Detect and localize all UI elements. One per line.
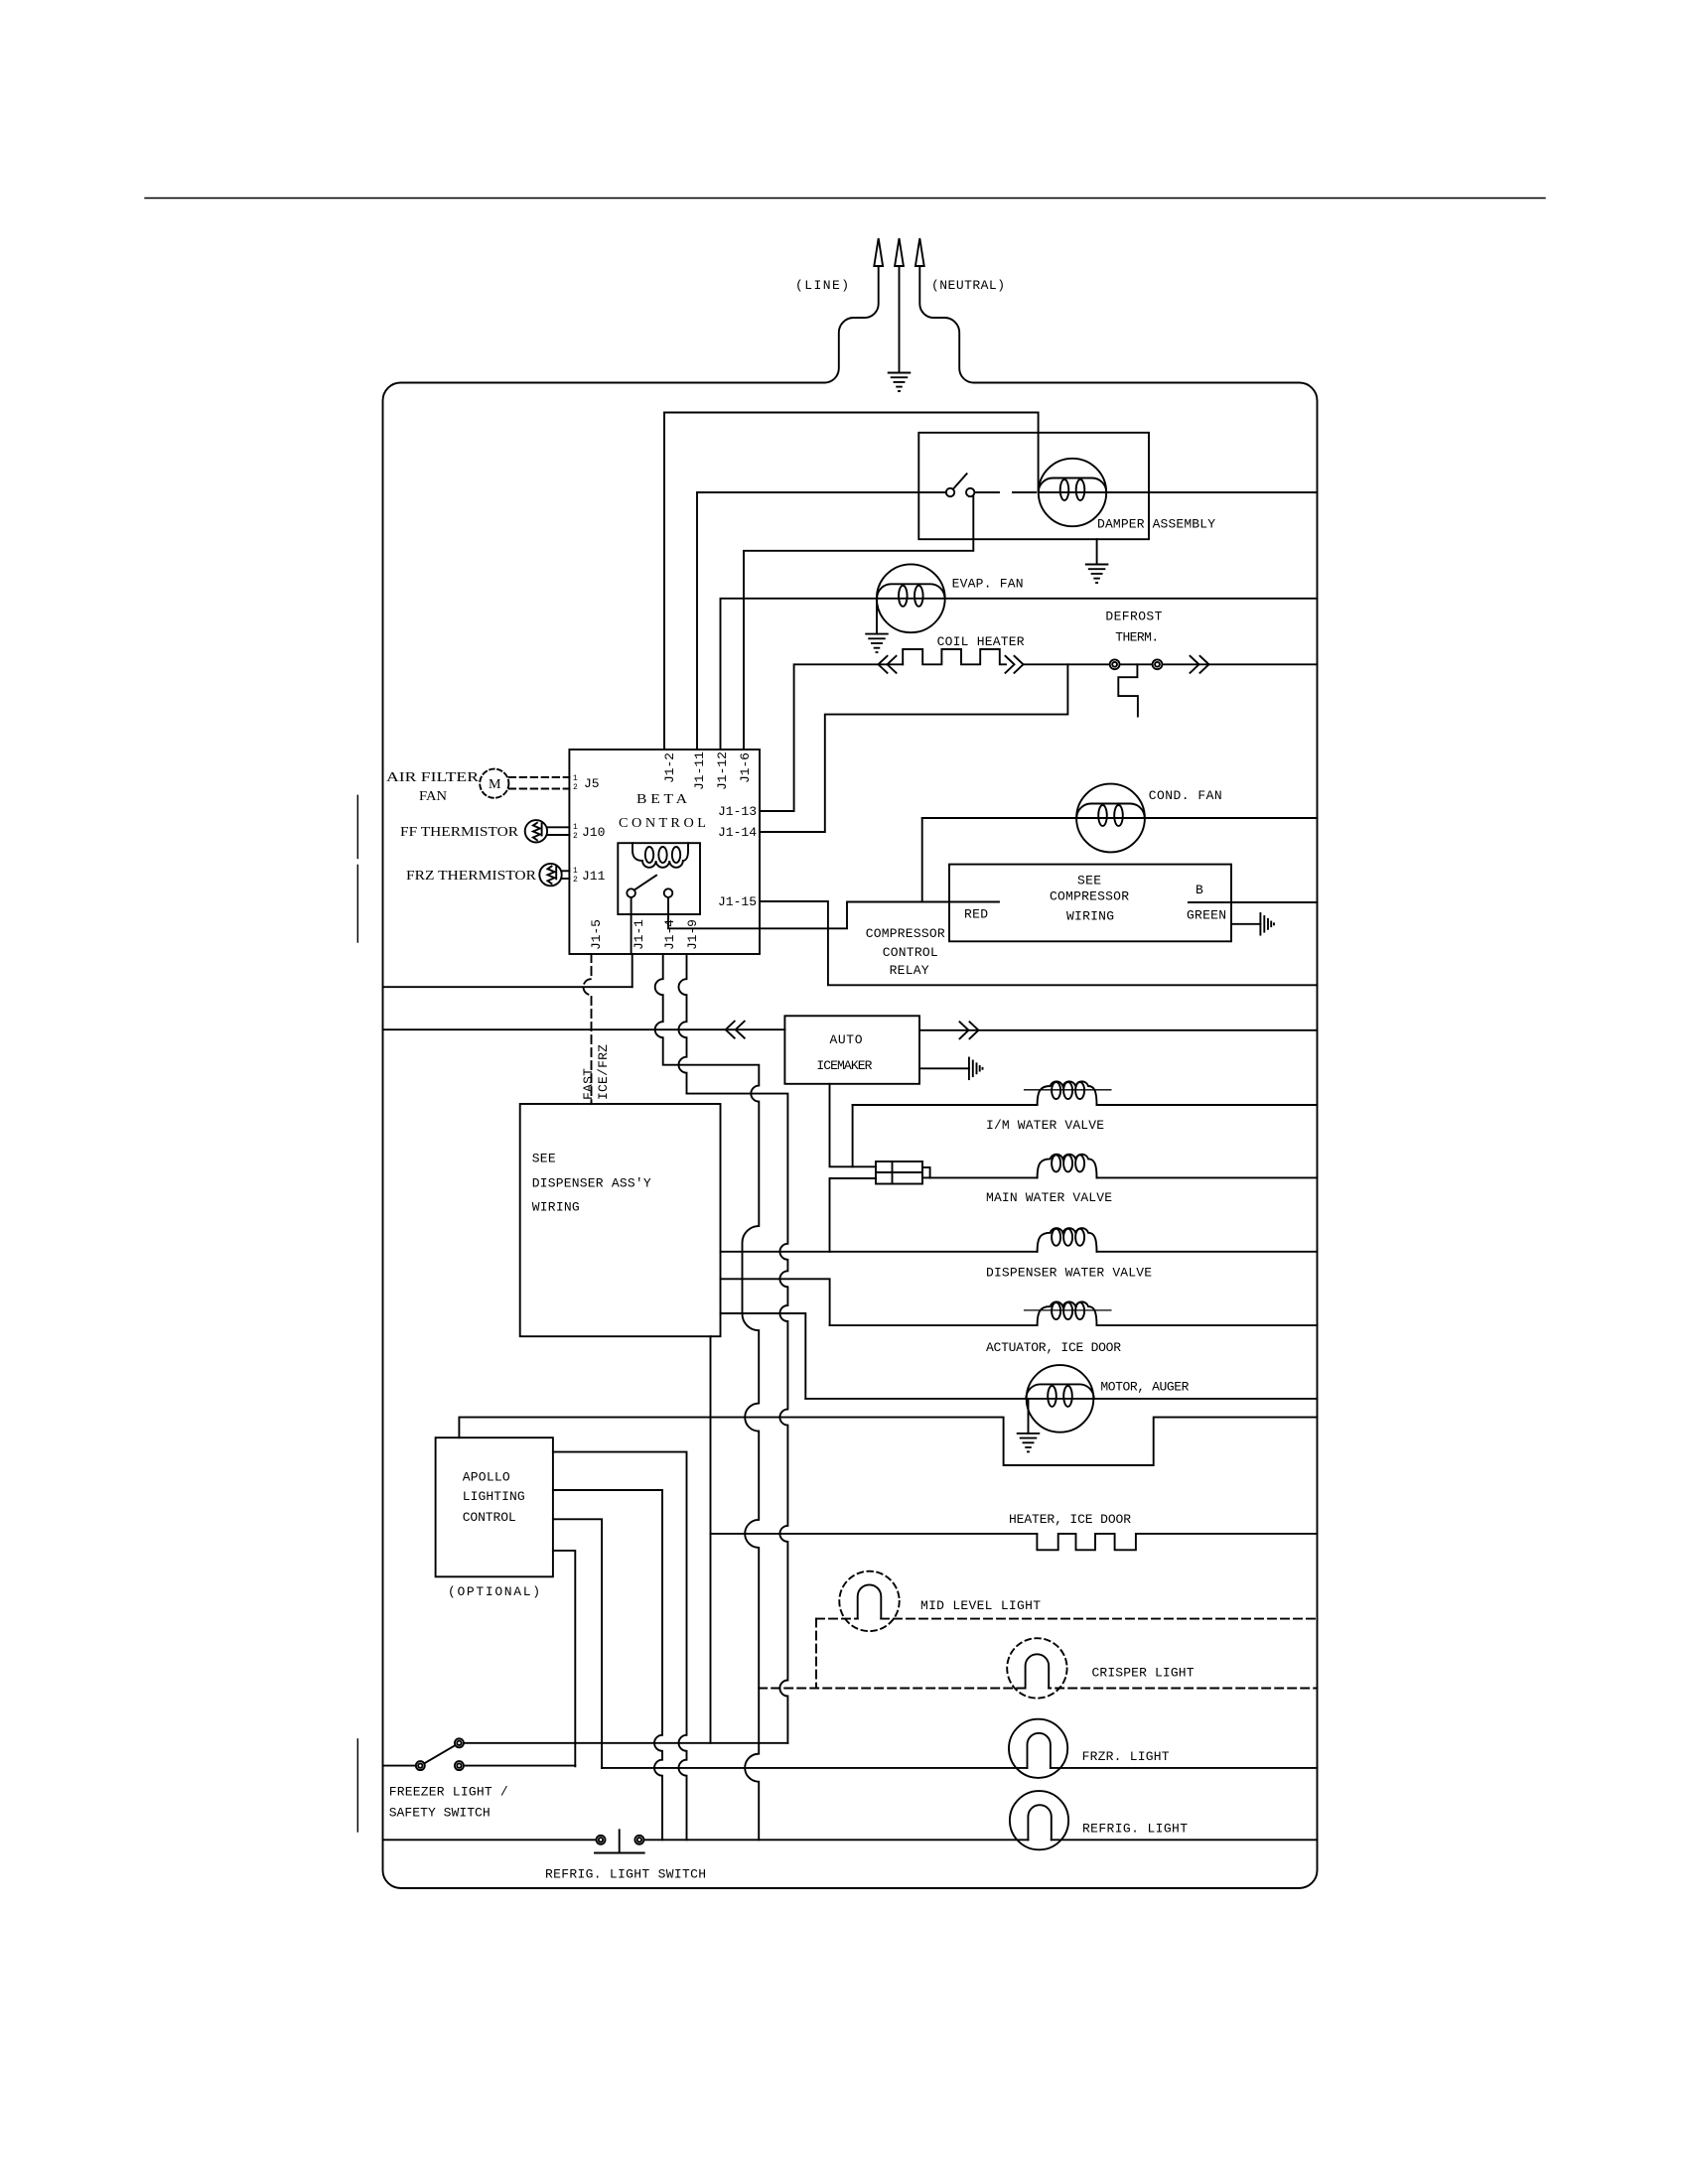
air filter fan motor M1 (dashed circle): [480, 769, 508, 798]
auto icemaker box: [784, 1016, 919, 1084]
frzr light lamp DS3: [1009, 1719, 1067, 1778]
dispenser stub2 to actuator row: [721, 1279, 830, 1325]
svg-text:J1-6: J1-6: [738, 752, 753, 783]
svg-text:(OPTIONAL): (OPTIONAL): [448, 1584, 540, 1599]
bracket tick bottom left: [356, 1739, 358, 1832]
wire cond fan row: [922, 817, 1318, 819]
chevron marks right of coil heater: [1006, 656, 1024, 673]
wire J1-2 riser to damper coil: [664, 413, 1039, 751]
actuator ice door coil L4: [1038, 1301, 1097, 1325]
svg-text:FRZ THERMISTOR: FRZ THERMISTOR: [406, 869, 537, 884]
svg-text:COMPRESSOR: COMPRESSOR: [866, 926, 945, 941]
svg-text:DISPENSER WATER VALVE: DISPENSER WATER VALVE: [986, 1266, 1152, 1281]
wire icemaker to right edge: [919, 1029, 1318, 1031]
wire J1-11 riser to damper switch: [697, 492, 946, 750]
svg-text:WIRING: WIRING: [1066, 909, 1114, 924]
svg-text:AIR FILTER: AIR FILTER: [386, 770, 480, 785]
svg-text:J11: J11: [582, 869, 606, 884]
svg-text:FF THERMISTOR: FF THERMISTOR: [400, 825, 519, 840]
damper motor circle: [1039, 459, 1106, 526]
svg-text:J1-9: J1-9: [685, 919, 700, 950]
svg-text:(NEUTRAL): (NEUTRAL): [931, 278, 1005, 293]
svg-text:COIL HEATER: COIL HEATER: [937, 634, 1025, 649]
svg-text:CONTROL: CONTROL: [883, 945, 938, 960]
J1-1 drop from beta box: [632, 954, 633, 987]
svg-text:SEE: SEE: [532, 1152, 556, 1166]
svg-text:ICEMAKER: ICEMAKER: [816, 1058, 872, 1073]
defrost thermostat sensing bracket: [1118, 664, 1138, 716]
refrig light switch S2: [597, 1836, 606, 1844]
freezer light safety switch S1: [416, 1761, 425, 1770]
svg-text:RED: RED: [964, 907, 988, 922]
ground symbol below plug: [889, 373, 911, 392]
motor auger coil: [1026, 1384, 1093, 1399]
svg-text:2: 2: [573, 832, 578, 841]
freezer switch riser to dispenser box: [710, 1336, 712, 1743]
wire left edge to freezer switch: [383, 1765, 416, 1767]
wire J1-15 to right edge (compressor relay bus): [760, 901, 1318, 985]
wire coil heater to defrost thermostat: [1024, 663, 1318, 665]
FF thermistor RT1: [525, 820, 547, 842]
relay contact left: [627, 888, 635, 897]
wire J1-13 riser to coil heater: [760, 664, 903, 811]
GREEN terminal stub and wire to right edge: [1189, 901, 1318, 903]
connector block lower feed: [830, 1178, 877, 1252]
svg-text:J1-2: J1-2: [662, 752, 677, 783]
svg-text:J5: J5: [584, 776, 600, 791]
wires FF thermistor to J10: [547, 826, 569, 828]
chevron marks left of coil heater: [879, 656, 897, 673]
svg-text:J1-4: J1-4: [662, 919, 677, 950]
svg-text:J10: J10: [582, 825, 605, 840]
line prong arrow: [874, 238, 883, 266]
apollo stub2 to refrig switch bus: [553, 1490, 662, 1840]
heater ice door row wire: [711, 1533, 1318, 1535]
svg-text:COMPRESSOR: COMPRESSOR: [1050, 889, 1129, 904]
wire cond fan drop to red wire: [921, 818, 923, 902]
neutral prong arrow: [915, 238, 924, 266]
dispenser stub3 to auger motor: [721, 1313, 806, 1399]
refrig light row wire right: [643, 1839, 1317, 1841]
dashed J1-5 drop to dispenser box: [584, 954, 592, 1104]
relay lever: [634, 876, 656, 890]
relay box inside beta control: [618, 843, 700, 914]
svg-text:B E T A: B E T A: [636, 792, 688, 807]
ground below auger motor: [1018, 1399, 1040, 1452]
svg-text:J1-15: J1-15: [718, 894, 757, 909]
svg-text:EVAP. FAN: EVAP. FAN: [952, 577, 1024, 592]
wires FRZ thermistor to J11: [562, 870, 570, 872]
svg-text:M: M: [489, 777, 501, 792]
svg-text:J1-5: J1-5: [589, 919, 604, 950]
apollo top wire with dip under auger: [459, 1418, 1317, 1465]
wire ground prong stem: [899, 266, 901, 372]
svg-text:COND. FAN: COND. FAN: [1149, 788, 1222, 803]
svg-text:THERM.: THERM.: [1115, 630, 1159, 645]
outer cabinet box: [383, 383, 1318, 1889]
frzr light row wire: [602, 1767, 1317, 1769]
refrig light row wire left: [383, 1839, 597, 1841]
dispenser assembly box: [520, 1104, 721, 1336]
svg-text:SAFETY SWITCH: SAFETY SWITCH: [389, 1806, 491, 1821]
svg-text:RELAY: RELAY: [890, 963, 929, 978]
svg-text:ACTUATOR, ICE DOOR: ACTUATOR, ICE DOOR: [986, 1340, 1121, 1355]
svg-text:B: B: [1196, 883, 1203, 897]
defrost thermostat terminal 1: [1110, 659, 1120, 669]
wire J1-6 riser to damper switch right contact: [744, 497, 973, 751]
svg-text:FREEZER LIGHT /: FREEZER LIGHT /: [389, 1785, 508, 1800]
wire J1-14 riser to defrost junction: [760, 664, 1067, 832]
svg-text:FRZR. LIGHT: FRZR. LIGHT: [1082, 1749, 1170, 1764]
I/M valve tap drop: [852, 1105, 854, 1166]
wire line prong to box top: [824, 266, 878, 383]
svg-text:CONTROL: CONTROL: [463, 1510, 516, 1525]
compressor wiring box: [949, 865, 1231, 942]
crisper light dashed feed: [759, 1688, 1317, 1690]
svg-text:HEATER, ICE DOOR: HEATER, ICE DOOR: [1009, 1512, 1131, 1527]
bracket tick upper left: [356, 795, 358, 858]
wire J1-12 riser to evap fan: [721, 599, 878, 750]
wire relay right contact to compressor RED: [668, 897, 949, 928]
svg-text:J1-14: J1-14: [718, 825, 757, 840]
ground prong arrow: [895, 238, 904, 266]
J1-4 drop from beta box: [655, 954, 760, 1840]
apollo stub1 to refrig switch bus: [553, 1452, 687, 1841]
svg-text:LIGHTING: LIGHTING: [463, 1489, 525, 1504]
ground below damper assembly: [1086, 539, 1108, 583]
svg-text:FAST: FAST: [581, 1068, 596, 1100]
refrig light lamp DS4: [1010, 1791, 1068, 1849]
svg-text:I/M WATER VALVE: I/M WATER VALVE: [986, 1118, 1104, 1133]
heater ice door element: [1037, 1534, 1136, 1550]
bracket tick lower left: [356, 865, 358, 942]
I/M water valve coil L1: [1038, 1081, 1097, 1105]
apollo stub4 to freezer switch bottom: [553, 1551, 575, 1766]
coil heater element: [903, 649, 1006, 664]
relay contact right: [664, 888, 673, 897]
svg-text:APOLLO: APOLLO: [463, 1470, 510, 1485]
dispenser water valve coil L3: [1038, 1228, 1097, 1252]
wire evap fan to right edge: [877, 598, 1318, 600]
svg-text:1: 1: [573, 867, 578, 876]
mid level light dashed feed: [816, 1618, 1318, 1620]
svg-text:FAN: FAN: [419, 789, 447, 804]
cond fan coil: [1076, 804, 1144, 819]
water valve connector block: [876, 1161, 922, 1184]
svg-text:1: 1: [573, 823, 578, 832]
svg-text:J1-1: J1-1: [632, 919, 646, 950]
svg-text:2: 2: [573, 783, 578, 792]
svg-text:C O N T R O L: C O N T R O L: [619, 816, 706, 831]
ground at compressor green: [1231, 913, 1274, 935]
main water valve coil L2: [1038, 1155, 1097, 1178]
damper assembly box: [918, 433, 1149, 539]
BETA control board box U1: [569, 750, 760, 954]
svg-text:SEE: SEE: [1077, 874, 1101, 888]
main water valve row wire: [930, 1176, 1318, 1178]
svg-text:MOTOR, AUGER: MOTOR, AUGER: [1100, 1380, 1189, 1395]
evap fan circle: [877, 564, 945, 632]
svg-text:ICE/FRZ: ICE/FRZ: [596, 1044, 611, 1100]
defrost thermostat terminal 2: [1153, 659, 1163, 669]
svg-text:CRISPER LIGHT: CRISPER LIGHT: [1092, 1666, 1195, 1681]
svg-text:J1-11: J1-11: [692, 751, 707, 790]
chevrons on icemaker right wire: [960, 1022, 979, 1038]
crisper light lamp DS2 (dashed circle): [1007, 1638, 1066, 1698]
icemaker pin2 drop: [830, 1084, 877, 1167]
chevrons on icemaker feed: [726, 1022, 745, 1038]
bus left edge at 1037 to icemaker: [383, 1028, 785, 1030]
dashed wires motor to J5: [509, 776, 570, 778]
svg-text:J1-13: J1-13: [718, 804, 757, 819]
svg-text:WIRING: WIRING: [532, 1200, 580, 1215]
damper switch contact left: [946, 488, 954, 496]
RED terminal stub: [949, 901, 999, 903]
top rule line: [145, 198, 1545, 200]
damper switch contact right: [966, 488, 974, 496]
svg-text:2: 2: [573, 876, 578, 885]
ground at icemaker: [919, 1058, 983, 1080]
wire relay left contact to J1-1: [631, 897, 633, 954]
svg-text:REFRIG. LIGHT SWITCH: REFRIG. LIGHT SWITCH: [545, 1867, 706, 1882]
svg-text:1: 1: [573, 774, 578, 783]
svg-text:REFRIG. LIGHT: REFRIG. LIGHT: [1082, 1822, 1188, 1837]
bus left edge at 994 to J1-1: [383, 986, 633, 988]
svg-text:MID LEVEL LIGHT: MID LEVEL LIGHT: [920, 1598, 1041, 1613]
J1-9 drop from beta box: [679, 954, 788, 1743]
motor auger row wire: [805, 1398, 1317, 1400]
svg-text:J1-12: J1-12: [715, 751, 730, 790]
svg-text:GREEN: GREEN: [1187, 908, 1226, 923]
I/M water valve row wire: [853, 1104, 1318, 1106]
damper switch dashed link: [976, 491, 1039, 493]
FRZ thermistor RT2: [539, 864, 561, 886]
motor auger circle M2: [1027, 1365, 1094, 1433]
evap fan coil: [877, 584, 944, 599]
wire neutral prong to box top: [919, 266, 973, 383]
freezer switch top wire to risers: [464, 1742, 788, 1744]
ground below evap fan: [866, 599, 888, 652]
mid level light lamp DS1 (dashed circle): [839, 1571, 899, 1631]
cond fan circle: [1076, 784, 1145, 853]
svg-text:AUTO: AUTO: [830, 1032, 863, 1047]
actuator ice door row wire: [830, 1324, 1318, 1326]
apollo lighting control box: [436, 1437, 553, 1576]
svg-text:DEFROST: DEFROST: [1105, 610, 1162, 624]
relay coil K1: [633, 843, 688, 868]
svg-text:DISPENSER ASS'Y: DISPENSER ASS'Y: [532, 1175, 651, 1190]
wire damper to right edge: [1039, 491, 1318, 493]
damper switch lever: [953, 474, 967, 489]
svg-text:MAIN WATER VALVE: MAIN WATER VALVE: [986, 1190, 1112, 1205]
freezer switch bottom wire to apollo stub4: [464, 1765, 575, 1767]
apollo stub3 to frzr light wire: [553, 1519, 602, 1768]
dispenser water valve row wire: [721, 1251, 1318, 1253]
svg-text:DAMPER ASSEMBLY: DAMPER ASSEMBLY: [1097, 517, 1215, 532]
damper motor coil: [1039, 478, 1106, 493]
chevron marks right of defrost thermostat: [1191, 656, 1209, 673]
